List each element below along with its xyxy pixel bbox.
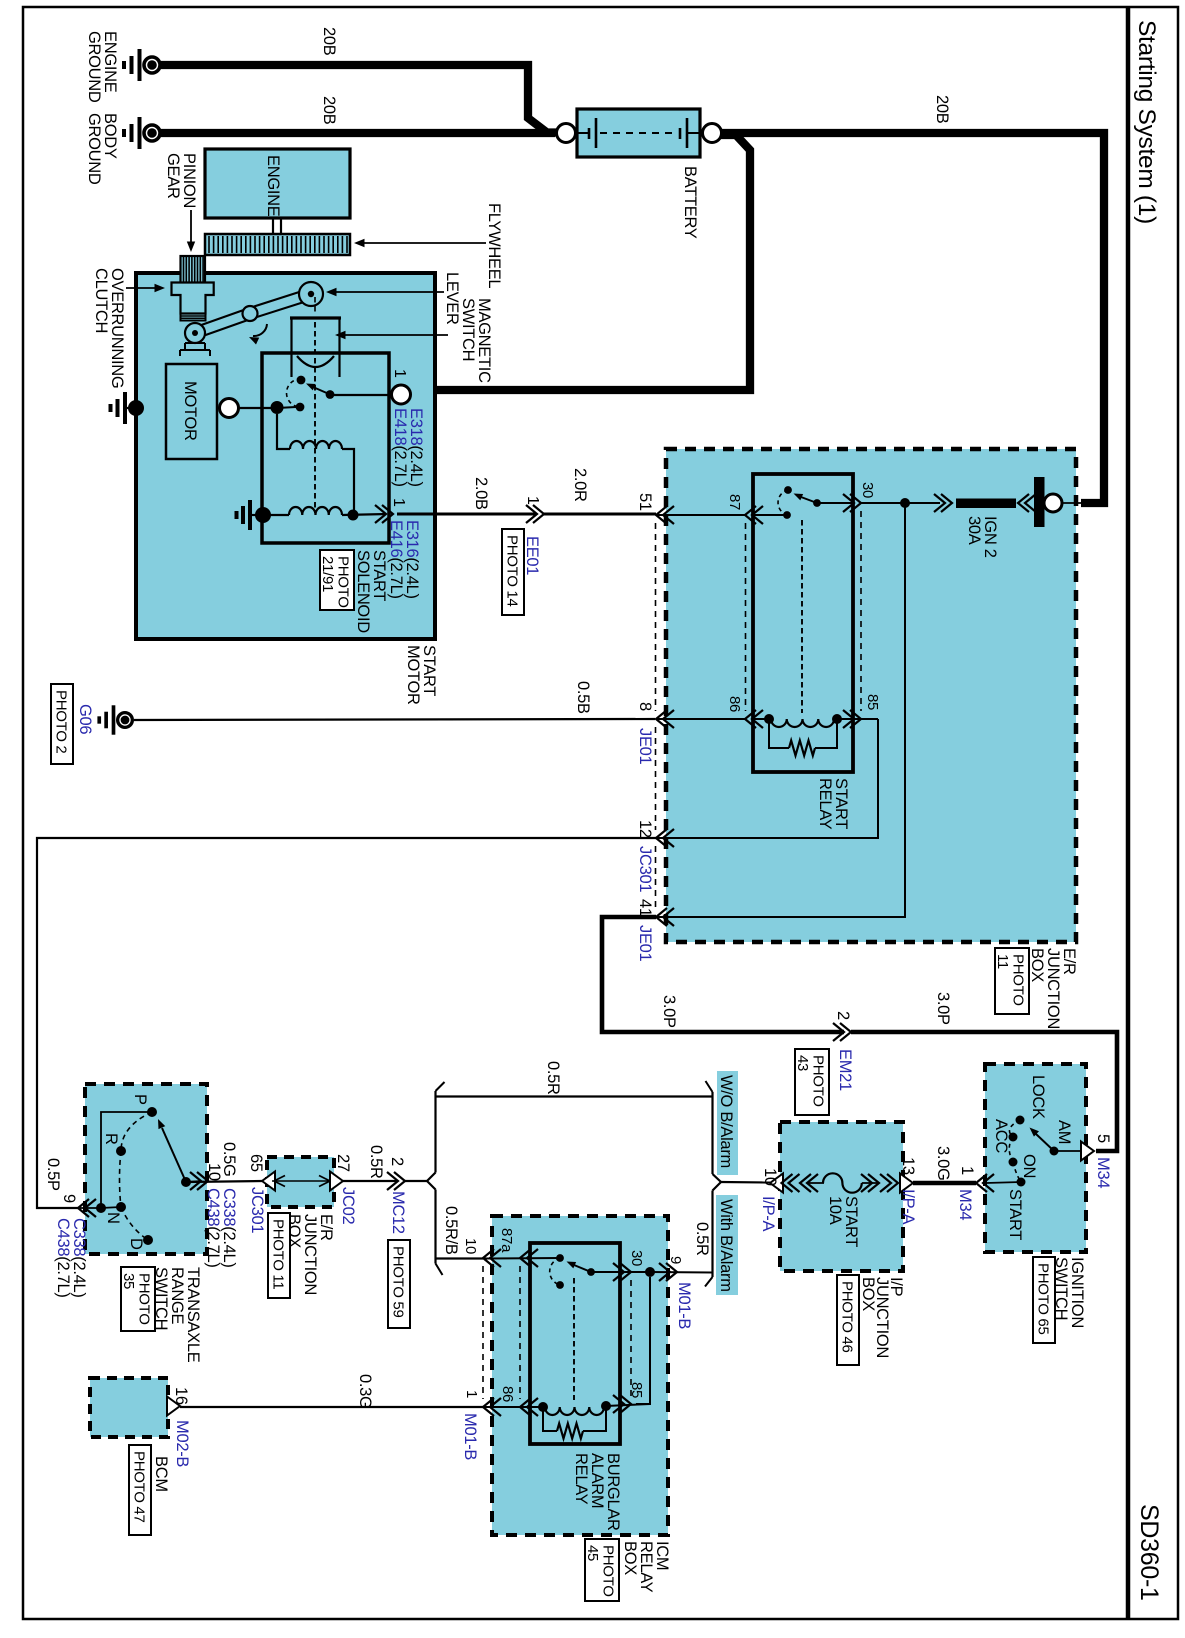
svg-text:R: R (102, 1133, 120, 1145)
relay 87a chevron (520, 1249, 538, 1267)
wire relay 30 to junction and fuse (861, 502, 940, 504)
svg-text:ON: ON (1020, 1154, 1038, 1178)
svg-text:W/O B/Alarm: W/O B/Alarm (717, 1075, 735, 1168)
relay pin 86 chevron (745, 710, 763, 728)
svg-text:1: 1 (524, 496, 541, 505)
svg-text:M34: M34 (1094, 1157, 1112, 1188)
ignition key travel dashed arc (1009, 1120, 1021, 1182)
pinion gear toothed piece (181, 256, 206, 283)
svg-text:65: 65 (247, 1154, 265, 1172)
svg-text:45: 45 (584, 1545, 601, 1561)
svg-text:PHOTO 2: PHOTO 2 (53, 690, 70, 753)
svg-text:P: P (131, 1094, 149, 1105)
motor ground (128, 400, 144, 416)
solenoid switch travel dashed arc (287, 379, 301, 407)
svg-text:M34: M34 (956, 1189, 974, 1220)
battery internal symbol (577, 132, 588, 134)
svg-text:PHOTO 14: PHOTO 14 (504, 535, 521, 607)
photo 11 box big (995, 948, 1029, 1014)
wire junction down to pin 41 (656, 503, 905, 917)
relay switch upper contact dot (784, 486, 792, 494)
wire 2.0R EE01 to E/R box pin 51 (544, 513, 656, 516)
burglar actuation dashed line (573, 1278, 575, 1400)
ICM pin 1 chevron (483, 1398, 501, 1416)
fuse IGN2 terminal circle (1044, 494, 1062, 512)
wire 3.0G ignition to I/P box 13 (913, 1181, 976, 1186)
wire 0.5R 27 to MC12 (343, 1180, 397, 1182)
photo 45 box (585, 1539, 619, 1601)
svg-text:M01-B: M01-B (461, 1413, 479, 1460)
solenoid terminal 1 circle (392, 385, 411, 404)
fuse START chevrons left (782, 1174, 800, 1192)
junction dot 30/41/fuse (900, 498, 910, 508)
wire pull coil to solenoid output (342, 514, 386, 515)
svg-text:2.0R: 2.0R (571, 468, 589, 502)
lever clevis fork (180, 343, 210, 356)
wire 3.0P pin 41 to EM21 to ignition switch (602, 917, 844, 1032)
svg-text:M02-B: M02-B (173, 1420, 191, 1467)
svg-text:5: 5 (1094, 1134, 1112, 1143)
photo 14 box (502, 529, 524, 615)
svg-text:12: 12 (636, 820, 654, 838)
svg-text:PHOTO: PHOTO (335, 556, 352, 608)
svg-text:86: 86 (499, 1386, 516, 1402)
photo 2 box (51, 684, 73, 764)
wire 0.3G BCM to ICM pin 1 (180, 1406, 483, 1408)
solenoid switch upper contact (297, 376, 306, 385)
ICM relay box (492, 1216, 668, 1535)
solenoid output chevron (375, 505, 393, 523)
photo 65 box (1033, 1257, 1055, 1343)
svg-text:EE01: EE01 (523, 536, 541, 575)
svg-text:E416(2.7L): E416(2.7L) (387, 520, 405, 599)
ignition ON dot (1009, 1158, 1018, 1167)
svg-text:JE01: JE01 (636, 728, 654, 765)
start solenoid box (262, 353, 389, 543)
solenoid coil ground dot (255, 507, 271, 523)
battery terminal negative (557, 124, 576, 143)
svg-text:PHOTO: PHOTO (810, 1055, 827, 1107)
svg-text:PHOTO 11: PHOTO 11 (270, 1219, 287, 1289)
switch wiper arm with arrow (162, 1128, 186, 1182)
svg-text:0.5R: 0.5R (693, 1222, 711, 1256)
label W/O B/Alarm highlighted (717, 1071, 738, 1175)
switch position R dot (116, 1146, 126, 1156)
svg-text:EM21: EM21 (836, 1049, 854, 1091)
svg-text:27: 27 (334, 1154, 352, 1172)
wire 20B engine ground to battery (160, 65, 556, 133)
burglar alarm relay box (530, 1243, 620, 1444)
wire relay common to pin 30 (817, 502, 853, 504)
svg-text:BOX: BOX (621, 1541, 639, 1575)
merge output wire to I/P-A 10 (721, 1181, 770, 1184)
svg-text:JC301: JC301 (248, 1187, 266, 1233)
I/P junction box (780, 1122, 903, 1271)
magnetic switch core (290, 316, 341, 319)
svg-text:0.5B: 0.5B (574, 681, 592, 714)
svg-text:8: 8 (636, 702, 654, 711)
solenoid switch common (326, 390, 335, 399)
svg-text:3.0P: 3.0P (660, 995, 678, 1028)
svg-text:G06: G06 (76, 704, 94, 734)
svg-text:M01-B: M01-B (675, 1282, 693, 1329)
svg-text:20B: 20B (320, 27, 338, 56)
svg-text:RELAY: RELAY (816, 778, 834, 830)
svg-text:9: 9 (60, 1194, 78, 1203)
ICM pin 10 chevron (483, 1249, 501, 1267)
internal bus double arrow (272, 1180, 330, 1182)
engine box (205, 149, 350, 218)
svg-text:1: 1 (463, 1390, 480, 1398)
ignition switch box (985, 1064, 1086, 1252)
switch travel dashed arc P-R-N-D (120, 1112, 153, 1240)
fuse START chevrons right (861, 1174, 879, 1192)
svg-text:PHOTO 59: PHOTO 59 (390, 1246, 407, 1318)
pin 13 triangle (900, 1174, 913, 1193)
wire 2.0B solenoid to EE01 (397, 513, 537, 516)
relay pin 85 chevron (843, 710, 861, 728)
pin 10 chevron (190, 1172, 208, 1190)
svg-text:I/P-A: I/P-A (759, 1196, 777, 1231)
burglar relay coil (483, 1406, 543, 1408)
title separator line (1126, 7, 1131, 1619)
wire junction to hold coil (277, 414, 290, 449)
start motor box (136, 273, 435, 639)
svg-text:1: 1 (958, 1166, 976, 1175)
svg-text:0.3G: 0.3G (356, 1374, 374, 1409)
flick tick top left (436, 1082, 445, 1091)
svg-text:PHOTO: PHOTO (136, 1273, 153, 1325)
svg-text:10: 10 (462, 1238, 479, 1254)
svg-text:21/91: 21/91 (319, 556, 336, 592)
burglar armature with arrow (574, 1265, 591, 1272)
svg-text:RELAY: RELAY (572, 1453, 590, 1505)
svg-text:2: 2 (834, 1011, 852, 1020)
wire 0.5G pin 10 to JC301 65 (186, 1181, 262, 1182)
svg-text:JC02: JC02 (339, 1187, 357, 1224)
lever big pivot circle (299, 282, 323, 306)
pin 8 chevron (656, 710, 674, 728)
wire 20B body ground to battery (160, 129, 555, 137)
pin 1 M34 chevron (976, 1174, 994, 1192)
connector MC12 chevron (387, 1172, 405, 1190)
pin 10 triangle (770, 1174, 783, 1193)
svg-text:30: 30 (859, 482, 876, 498)
svg-text:MC12: MC12 (389, 1191, 407, 1234)
pin 41 chevron (656, 908, 674, 926)
burglar switch lower dot (556, 1281, 564, 1289)
svg-text:JC301: JC301 (636, 846, 654, 892)
svg-text:0.5P: 0.5P (44, 1158, 62, 1191)
pin 5 AM triangle (1081, 1142, 1094, 1161)
svg-text:1: 1 (390, 498, 407, 507)
merge vertical bottom (711, 1191, 713, 1278)
BCM pin 16 triangle (167, 1397, 180, 1416)
wire hold coil to pull coil (342, 449, 354, 515)
fuse IGN2 bus bar (1034, 477, 1045, 527)
ICM pin 9 chevron (659, 1263, 677, 1281)
wire AM dot to pin 5 (1054, 1150, 1085, 1152)
svg-text:87: 87 (726, 494, 743, 510)
ignition LOCK dot (1016, 1116, 1025, 1125)
relay switch common dot (813, 499, 821, 507)
svg-text:JE01: JE01 (636, 925, 654, 962)
motor terminal circle (217, 407, 229, 409)
svg-text:BCM: BCM (152, 1456, 170, 1492)
relay switch travel dashed arc (778, 490, 788, 515)
svg-text:41: 41 (636, 899, 654, 917)
svg-text:13: 13 (899, 1157, 917, 1175)
solenoid actuation dashed line (314, 297, 316, 312)
svg-text:16: 16 (172, 1387, 190, 1405)
svg-text:LEVER: LEVER (443, 272, 461, 325)
wire 20B battery to start motor solenoid terminal 1 (411, 135, 750, 390)
svg-text:35: 35 (120, 1273, 137, 1289)
split branch up vertical (434, 1091, 436, 1173)
solenoid pull-in coil (289, 507, 342, 515)
wire burglar 30 to ICM pin 9 (650, 1271, 713, 1274)
clutch shaft splines (181, 314, 206, 321)
relay 85 chevron burglar (613, 1395, 631, 1413)
svg-text:PHOTO: PHOTO (600, 1545, 617, 1597)
start relay box (753, 474, 853, 772)
switch wiring P-N-pin9 (80, 1112, 152, 1208)
lever lower circle (185, 323, 205, 343)
relay pin 30 chevron (843, 494, 861, 512)
svg-text:0.5R: 0.5R (367, 1145, 385, 1179)
lever rotation arrow (253, 324, 267, 336)
svg-text:LOCK: LOCK (1029, 1075, 1047, 1119)
relay armature with arrow (801, 497, 817, 503)
merge diagonals (713, 1174, 722, 1182)
wire wiper to pin 10 (186, 1181, 201, 1182)
wire split node (405, 1180, 427, 1182)
wire 20B battery to IGN2 fuse (722, 133, 1104, 503)
svg-text:87a: 87a (498, 1228, 515, 1253)
pin 65 triangle (262, 1172, 275, 1191)
wire 0.5P pin 12 to transaxle range switch (37, 838, 656, 1208)
pin 9 chevron (78, 1199, 96, 1217)
fuse IGN2 chevron right (1018, 494, 1036, 512)
overrunning clutch body (172, 283, 214, 314)
svg-text:43: 43 (794, 1055, 811, 1071)
dashed line 30-85 (860, 511, 862, 711)
svg-text:FLYWHEEL: FLYWHEEL (485, 203, 503, 288)
svg-text:D: D (127, 1238, 145, 1250)
fuse START wavy element (807, 1182, 824, 1184)
ground G06 symbol (99, 705, 132, 734)
wire pin 51 to relay 87 (656, 514, 745, 516)
svg-text:ENGINE: ENGINE (264, 155, 282, 217)
svg-text:0.5G: 0.5G (220, 1142, 238, 1177)
relay coil (753, 718, 769, 720)
svg-text:C438(2.7L): C438(2.7L) (54, 1218, 72, 1298)
wire motor terminal to solenoid (238, 407, 277, 409)
svg-text:51: 51 (636, 493, 654, 511)
lever mid circle (243, 306, 258, 321)
burglar coil resistor parallel (543, 1407, 557, 1431)
dashed line 87a-86 (519, 1266, 521, 1399)
switch position N dots (96, 1203, 106, 1213)
svg-text:2.0B: 2.0B (472, 477, 490, 510)
label With B/Alarm highlighted (716, 1195, 738, 1295)
svg-text:MOTOR: MOTOR (181, 381, 199, 441)
body ground symbol (124, 117, 160, 149)
pin 27 triangle (330, 1172, 343, 1191)
wire relay 85 to pin 12 (837, 718, 878, 720)
solenoid switch armature arm with arrow (313, 387, 329, 394)
svg-text:SWITCH: SWITCH (459, 298, 477, 361)
photo 43 box (795, 1049, 829, 1115)
ignition wiper arm with arrow (1036, 1134, 1054, 1151)
dashed line 87-86 (745, 523, 747, 711)
svg-text:CLUTCH: CLUTCH (92, 268, 110, 333)
battery terminal positive (703, 124, 722, 143)
fuse IGN2 chevron left (934, 494, 952, 512)
solenoid hold-in coil (290, 441, 342, 449)
wire 0.5R/B branch to ICM (436, 1257, 484, 1259)
dashed line ICM 10-1 (482, 1266, 484, 1399)
svg-text:MOTOR: MOTOR (404, 645, 422, 705)
svg-text:0.5R/B: 0.5R/B (442, 1206, 460, 1255)
solenoid switch fixed contact (296, 403, 305, 412)
svg-text:PHOTO 47: PHOTO 47 (131, 1451, 148, 1523)
svg-text:START: START (1006, 1189, 1024, 1240)
svg-text:10A: 10A (826, 1196, 844, 1225)
relay 30 chevron burglar (613, 1263, 631, 1281)
flywheel toothed bar (205, 234, 350, 255)
dashed connector line pins 51-8-12-41 (655, 523, 657, 711)
relay switch: pivot dot (783, 511, 791, 519)
ignition AM dot (1050, 1147, 1059, 1156)
relay actuation dashed line (801, 520, 803, 713)
wire 3.0P EM21 to AM corner (851, 1032, 1117, 1151)
E/R junction box (666, 449, 1076, 942)
merge vertical top (711, 1092, 713, 1174)
wire START dot to pin 1 (986, 1182, 1021, 1183)
svg-text:Starting System (1): Starting System (1) (1133, 20, 1160, 224)
transaxle range switch box (85, 1084, 207, 1254)
pin 51 chevron (656, 506, 674, 524)
svg-text:PHOTO 46: PHOTO 46 (839, 1281, 856, 1353)
burglar switch common dot (587, 1268, 595, 1276)
flick tick merge top (706, 1081, 713, 1092)
svg-text:SD360-1: SD360-1 (1135, 1504, 1163, 1601)
svg-text:BATTERY: BATTERY (681, 166, 699, 239)
thin lead fuse to 20B wire (1062, 502, 1085, 504)
lever linkage bar 1 (250, 294, 311, 314)
small E/R junction box (267, 1157, 334, 1207)
relay 86 chevron burglar (520, 1398, 538, 1416)
split diagonals at MC12 (427, 1173, 436, 1182)
lever linkage bar 2 (195, 314, 250, 334)
svg-text:11: 11 (994, 954, 1011, 969)
battery box (577, 109, 700, 157)
svg-text:AM: AM (1055, 1120, 1073, 1144)
dashed line 30-85 burglar (630, 1280, 632, 1396)
svg-text:3.0P: 3.0P (934, 992, 952, 1025)
photo 59 box (388, 1240, 410, 1328)
connector EM21 chevron (833, 1023, 851, 1041)
svg-text:PHOTO: PHOTO (1010, 954, 1027, 1006)
wire 85 to junction (636, 1277, 650, 1404)
engine shaft (272, 218, 274, 234)
svg-text:20B: 20B (320, 96, 338, 125)
ignition ACC dot (1009, 1133, 1018, 1142)
photo 47 box (129, 1445, 151, 1535)
svg-text:1: 1 (391, 369, 408, 378)
solenoid junction dot (271, 401, 284, 414)
svg-text:E418(2.7L): E418(2.7L) (391, 408, 409, 487)
svg-text:With B/Alarm: With B/Alarm (717, 1199, 735, 1292)
connector EE01 chevron (526, 505, 544, 523)
fuse IGN2 element bar (956, 499, 1016, 509)
wire 0.5B G06 to pin 8 (134, 719, 655, 720)
flick tick bottom left (436, 1264, 443, 1276)
motor box (166, 364, 217, 459)
burglar switch upper dot (556, 1254, 564, 1262)
switch wiper dot (181, 1177, 191, 1187)
flick tick merge bottom (705, 1277, 713, 1287)
svg-text:0.5R: 0.5R (544, 1061, 562, 1095)
photo 21/91 box (320, 550, 354, 610)
svg-text:GROUND: GROUND (85, 31, 103, 103)
switch position P dot (147, 1107, 157, 1117)
svg-text:PHOTO 65: PHOTO 65 (1035, 1263, 1052, 1335)
photo 35 box (121, 1267, 155, 1331)
wire pin 8 to relay 86 (656, 718, 745, 720)
pin 12 chevron (656, 829, 674, 847)
svg-text:BOX: BOX (859, 1277, 877, 1311)
svg-text:86: 86 (726, 696, 743, 712)
wire 0.5R top branch W/O B/Alarm (436, 1095, 713, 1097)
svg-text:SOLENOID: SOLENOID (354, 550, 372, 633)
svg-text:10: 10 (761, 1168, 779, 1186)
svg-text:ACC: ACC (992, 1119, 1010, 1153)
svg-text:BOX: BOX (1028, 948, 1046, 982)
wire burglar common to 30 (591, 1271, 650, 1273)
svg-text:GEAR: GEAR (164, 153, 182, 199)
svg-text:I/P-A: I/P-A (899, 1189, 917, 1224)
svg-text:N: N (104, 1212, 122, 1224)
switch position D dot (143, 1235, 153, 1245)
svg-text:3.0G: 3.0G (934, 1146, 952, 1181)
wire solenoid common to terminal 1 (331, 394, 392, 396)
svg-text:30: 30 (628, 1250, 645, 1266)
svg-text:2: 2 (388, 1157, 406, 1166)
split branch down vertical (434, 1190, 436, 1264)
photo 11 small box (268, 1213, 290, 1298)
svg-text:GROUND: GROUND (85, 113, 103, 185)
svg-text:85: 85 (864, 694, 881, 710)
relay pin 87 chevron (745, 506, 763, 524)
svg-text:20B: 20B (933, 95, 951, 124)
svg-text:9: 9 (667, 1256, 684, 1264)
wire ICM 10 to relay 87a (483, 1257, 560, 1260)
svg-text:C438(2.7L): C438(2.7L) (204, 1188, 222, 1268)
BCM box (90, 1378, 168, 1437)
photo 46 box (837, 1275, 859, 1365)
burglar switch travel dashed arc (550, 1258, 560, 1285)
ignition START dot (1017, 1178, 1026, 1187)
engine ground symbol (124, 49, 160, 81)
svg-text:30A: 30A (965, 516, 983, 545)
relay coil resistor parallel (769, 719, 789, 748)
